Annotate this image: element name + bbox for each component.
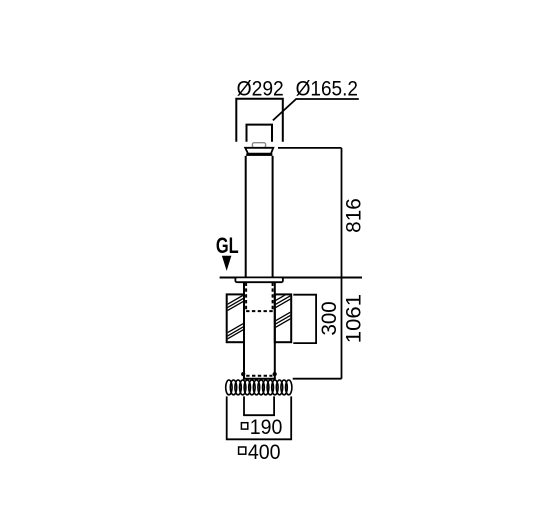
sleeve bottom hidden line (dashed) xyxy=(246,375,272,377)
dimension bracket 400 xyxy=(227,396,292,439)
leader line from Ø165.2 label xyxy=(273,99,359,120)
post body left line xyxy=(245,156,247,277)
underground sleeve right line xyxy=(274,282,276,379)
svg-text:400: 400 xyxy=(248,441,281,464)
dimension extension line at sleeve bottom xyxy=(293,378,342,380)
foundation block left xyxy=(227,294,244,342)
svg-text:Ø165.2: Ø165.2 xyxy=(296,78,358,101)
GL arrow (filled triangle) xyxy=(222,256,232,271)
black collar band xyxy=(246,153,272,156)
sleeve bottom pivot dot left xyxy=(241,372,245,376)
dimension extension line at cap level xyxy=(278,147,342,149)
dimension line 816/1061 vertical xyxy=(341,148,343,379)
dimension bracket 300 xyxy=(293,295,316,343)
bollard cap knob xyxy=(252,143,265,148)
svg-text:816: 816 xyxy=(343,198,366,233)
bollard cap (trapezoid) xyxy=(245,148,273,154)
hidden post bottom (dashed) xyxy=(246,310,273,312)
flange plate at ground level xyxy=(235,277,283,282)
sleeve bottom pivot dot right xyxy=(273,372,277,376)
svg-text:300: 300 xyxy=(318,301,341,335)
foundation block right xyxy=(275,294,291,342)
dimension bracket for Ø165.2 xyxy=(247,125,273,142)
spring coil xyxy=(226,380,292,395)
dimension bracket 190 xyxy=(244,396,274,415)
post body right line xyxy=(272,156,274,277)
svg-text:GL: GL xyxy=(216,233,239,258)
underground sleeve left line xyxy=(243,282,245,379)
sleeve bottom line xyxy=(243,378,276,380)
svg-text:190: 190 xyxy=(250,416,283,439)
ground line xyxy=(220,277,362,279)
svg-text:Ø292: Ø292 xyxy=(237,78,284,101)
hidden post left (dashed) xyxy=(245,283,247,311)
dimension bracket for Ø292 xyxy=(236,99,282,142)
hidden post right (dashed) xyxy=(272,283,274,311)
svg-text:1061: 1061 xyxy=(343,294,366,343)
square symbol for 190 xyxy=(241,423,247,429)
square symbol for 400 xyxy=(239,447,246,454)
